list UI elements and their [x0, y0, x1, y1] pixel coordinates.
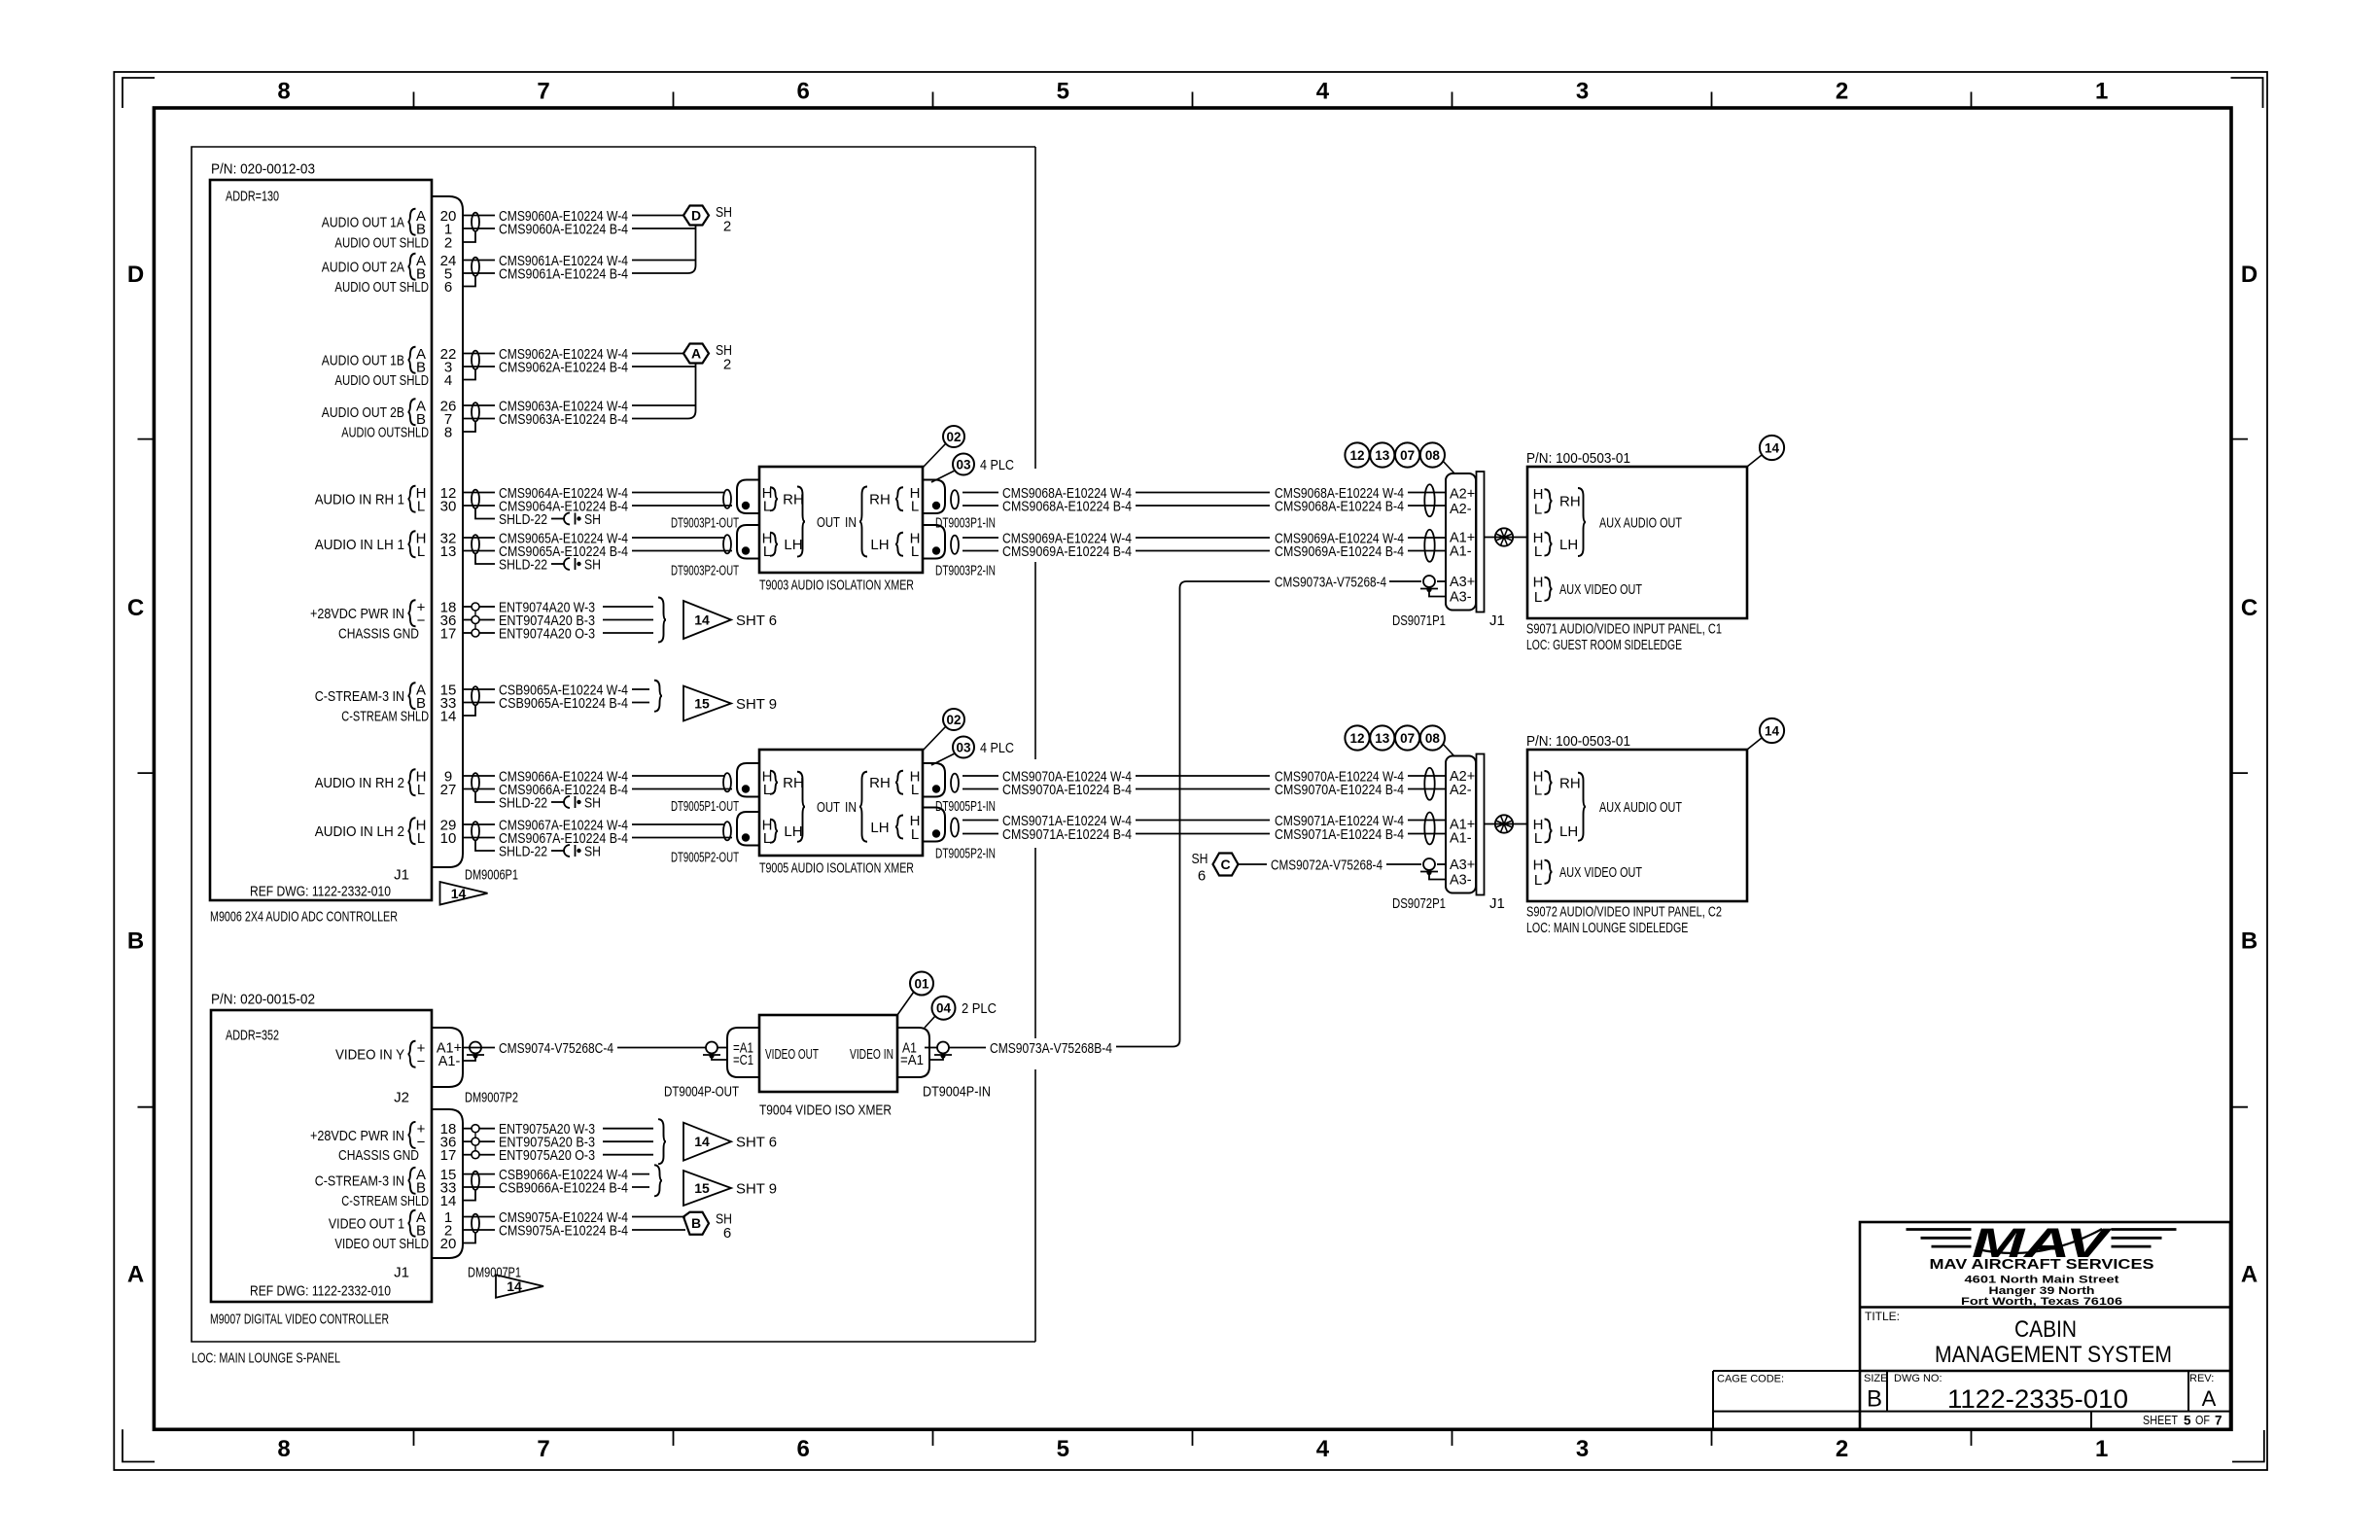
svg-text:17: 17 — [440, 1147, 457, 1164]
svg-text:T9003 AUDIO ISOLATION XMER: T9003 AUDIO ISOLATION XMER — [759, 577, 914, 593]
svg-text:2: 2 — [1836, 79, 1848, 105]
svg-text:14: 14 — [440, 708, 457, 724]
svg-text:AUDIO OUT SHLD: AUDIO OUT SHLD — [334, 372, 429, 389]
svg-text:L: L — [1534, 501, 1542, 517]
svg-text:A1-: A1- — [1450, 831, 1472, 847]
svg-text:L: L — [763, 498, 771, 514]
svg-text:6: 6 — [444, 279, 452, 296]
svg-text:10: 10 — [440, 830, 457, 847]
svg-text:CMS9073A-V75268-4: CMS9073A-V75268-4 — [1275, 574, 1386, 590]
svg-text:12: 12 — [1349, 731, 1364, 746]
svg-text:P/N: 020-0012-03: P/N: 020-0012-03 — [211, 160, 315, 177]
svg-text:C-STREAM SHLD: C-STREAM SHLD — [341, 1193, 429, 1209]
svg-text:13: 13 — [1375, 731, 1390, 746]
svg-text:DT9003P2-IN: DT9003P2-IN — [935, 562, 996, 578]
svg-text:DS9072P1: DS9072P1 — [1392, 895, 1446, 912]
svg-text:MAV AIRCRAFT SERVICES: MAV AIRCRAFT SERVICES — [1930, 1257, 2154, 1273]
svg-text:CSB9066A-E10224 B-4: CSB9066A-E10224 B-4 — [499, 1179, 628, 1196]
svg-text:AUDIO IN RH 1: AUDIO IN RH 1 — [315, 492, 404, 508]
svg-text:AUX VIDEO OUT: AUX VIDEO OUT — [1559, 864, 1642, 881]
svg-text:L: L — [417, 498, 425, 514]
svg-text:14: 14 — [1765, 723, 1780, 738]
svg-text:REF DWG: 1122-2332-010: REF DWG: 1122-2332-010 — [250, 1282, 391, 1299]
svg-text:CMS9075A-E10224 B-4: CMS9075A-E10224 B-4 — [499, 1222, 628, 1239]
svg-text:CMS9066A-E10224 B-4: CMS9066A-E10224 B-4 — [499, 782, 628, 798]
svg-text:CMS9074-V75268C-4: CMS9074-V75268C-4 — [499, 1040, 613, 1057]
svg-text:AUDIO IN LH 1: AUDIO IN LH 1 — [315, 537, 404, 553]
svg-text:2 PLC: 2 PLC — [962, 1000, 997, 1017]
svg-text:4: 4 — [1316, 1436, 1330, 1462]
svg-text:CMS9068A-E10224 B-4: CMS9068A-E10224 B-4 — [1275, 498, 1404, 514]
svg-text:RH: RH — [783, 775, 804, 791]
svg-text:CMS9073A-V75268B-4: CMS9073A-V75268B-4 — [990, 1040, 1112, 1057]
svg-text:TITLE:: TITLE: — [1865, 1310, 1900, 1323]
svg-text:A: A — [127, 1261, 144, 1287]
svg-text:2: 2 — [723, 218, 731, 234]
svg-text:14: 14 — [507, 1278, 522, 1294]
svg-text:CMS9063A-E10224 B-4: CMS9063A-E10224 B-4 — [499, 411, 628, 428]
svg-text:C: C — [2241, 595, 2257, 621]
svg-text:B: B — [1867, 1386, 1882, 1413]
svg-text:DT9005P2-OUT: DT9005P2-OUT — [671, 849, 739, 865]
svg-text:L: L — [911, 826, 919, 843]
svg-text:15: 15 — [694, 1180, 710, 1196]
svg-text:02: 02 — [946, 713, 961, 727]
svg-text:P/N: 100-0503-01: P/N: 100-0503-01 — [1526, 450, 1630, 467]
svg-text:B: B — [2241, 928, 2257, 955]
svg-text:MANAGEMENT SYSTEM: MANAGEMENT SYSTEM — [1935, 1342, 2172, 1368]
svg-text:DT9003P1-OUT: DT9003P1-OUT — [671, 514, 739, 531]
svg-text:DT9005P1-IN: DT9005P1-IN — [935, 798, 996, 815]
svg-text:A2+: A2+ — [1450, 487, 1475, 503]
svg-text:J1: J1 — [1489, 612, 1505, 629]
svg-text:AUDIO OUT SHLD: AUDIO OUT SHLD — [334, 279, 429, 296]
svg-text:14: 14 — [440, 1193, 457, 1209]
svg-text:CMS9064A-E10224 B-4: CMS9064A-E10224 B-4 — [499, 498, 628, 514]
svg-text:CMS9071A-E10224 B-4: CMS9071A-E10224 B-4 — [1275, 826, 1404, 843]
svg-text:4 PLC: 4 PLC — [980, 457, 1014, 473]
svg-text:DM9007P2: DM9007P2 — [465, 1089, 518, 1105]
svg-text:VIDEO OUT SHLD: VIDEO OUT SHLD — [334, 1236, 429, 1252]
svg-text:CMS9069A-E10224 B-4: CMS9069A-E10224 B-4 — [1002, 543, 1132, 560]
svg-text:T9004 VIDEO ISO XMER: T9004 VIDEO ISO XMER — [759, 1102, 892, 1118]
svg-text:A3-: A3- — [1450, 873, 1472, 889]
svg-text:SHT 6: SHT 6 — [736, 612, 777, 629]
svg-text:RH: RH — [1559, 494, 1581, 510]
svg-text:DT9004P-IN: DT9004P-IN — [923, 1083, 991, 1100]
svg-text:LH: LH — [870, 820, 889, 836]
svg-text:RH: RH — [869, 775, 891, 791]
svg-text:B: B — [691, 1215, 701, 1231]
svg-text:LH: LH — [1559, 537, 1578, 553]
svg-text:C-STREAM-3 IN: C-STREAM-3 IN — [315, 1173, 404, 1190]
svg-text:D: D — [2241, 262, 2257, 288]
svg-text:13: 13 — [1375, 448, 1390, 463]
svg-text:SHEET: SHEET — [2143, 1414, 2178, 1427]
svg-text:8: 8 — [444, 424, 452, 440]
svg-text:A1-: A1- — [1450, 544, 1472, 560]
svg-text:CMS9061A-E10224 B-4: CMS9061A-E10224 B-4 — [499, 265, 628, 282]
svg-text:CMS9065A-E10224 B-4: CMS9065A-E10224 B-4 — [499, 543, 628, 560]
svg-text:DT9003P1-IN: DT9003P1-IN — [935, 514, 996, 531]
svg-text:01: 01 — [914, 976, 929, 991]
svg-text:DT9004P-OUT: DT9004P-OUT — [664, 1083, 739, 1100]
svg-text:DM9006P1: DM9006P1 — [465, 866, 518, 883]
svg-text:7: 7 — [2215, 1413, 2222, 1427]
svg-text:SHT 9: SHT 9 — [736, 696, 777, 713]
svg-text:LH: LH — [784, 537, 802, 553]
svg-text:A1-: A1- — [438, 1054, 461, 1069]
svg-text:08: 08 — [1425, 448, 1441, 463]
svg-text:A: A — [691, 346, 701, 362]
svg-text:2: 2 — [1836, 1436, 1848, 1462]
svg-text:07: 07 — [1400, 448, 1415, 463]
svg-text:6: 6 — [797, 1436, 810, 1462]
svg-text:6: 6 — [1198, 867, 1206, 884]
svg-text:AUDIO OUT 1A: AUDIO OUT 1A — [322, 215, 404, 231]
svg-text:VIDEO IN: VIDEO IN — [850, 1046, 893, 1063]
svg-text:14: 14 — [1765, 440, 1780, 455]
svg-text:C-STREAM SHLD: C-STREAM SHLD — [341, 708, 429, 724]
svg-text:DS9071P1: DS9071P1 — [1392, 612, 1446, 629]
svg-text:ADDR=130: ADDR=130 — [226, 188, 279, 204]
svg-text:RH: RH — [869, 492, 891, 508]
svg-text:L: L — [1534, 543, 1542, 560]
svg-text:08: 08 — [1425, 731, 1441, 746]
svg-text:L: L — [1534, 830, 1542, 847]
svg-text:VIDEO OUT 1: VIDEO OUT 1 — [329, 1216, 404, 1233]
svg-text:J1: J1 — [394, 1264, 409, 1280]
svg-text:RH: RH — [1559, 775, 1581, 791]
svg-text:A3-: A3- — [1450, 590, 1472, 606]
svg-text:8: 8 — [277, 79, 290, 105]
svg-text:6: 6 — [797, 79, 810, 105]
svg-text:14: 14 — [451, 886, 467, 901]
svg-text:CMS9068A-E10224 B-4: CMS9068A-E10224 B-4 — [1002, 498, 1132, 514]
svg-text:LOC: GUEST ROOM SIDELEDGE: LOC: GUEST ROOM SIDELEDGE — [1526, 637, 1682, 653]
svg-text:OUT: OUT — [817, 799, 840, 816]
svg-text:LH: LH — [1559, 823, 1578, 840]
svg-text:13: 13 — [440, 543, 457, 560]
svg-text:CMS9067A-E10224 B-4: CMS9067A-E10224 B-4 — [499, 830, 628, 847]
svg-text:14: 14 — [694, 612, 710, 628]
svg-text:5: 5 — [2184, 1413, 2191, 1427]
svg-text:ADDR=352: ADDR=352 — [226, 1027, 279, 1043]
svg-text:CABIN: CABIN — [2014, 1316, 2077, 1343]
svg-text:ENT9075A20 O-3: ENT9075A20 O-3 — [499, 1147, 595, 1164]
svg-text:AUX AUDIO OUT: AUX AUDIO OUT — [1599, 799, 1682, 816]
svg-text:L: L — [763, 543, 771, 560]
svg-text:D: D — [691, 208, 701, 224]
svg-text:DT9005P2-IN: DT9005P2-IN — [935, 845, 996, 861]
svg-text:4601 North Main Street: 4601 North Main Street — [1965, 1274, 2119, 1285]
svg-text:27: 27 — [440, 782, 457, 798]
svg-text:4: 4 — [444, 372, 452, 389]
svg-text:C: C — [1220, 857, 1230, 872]
svg-text:AUX VIDEO OUT: AUX VIDEO OUT — [1559, 581, 1642, 598]
svg-text:LH: LH — [870, 537, 889, 553]
svg-text:IN: IN — [845, 514, 857, 531]
svg-text:L: L — [417, 830, 425, 847]
svg-text:DT9005P1-OUT: DT9005P1-OUT — [671, 798, 739, 815]
svg-text:3: 3 — [1576, 1436, 1589, 1462]
svg-text:04: 04 — [936, 1001, 952, 1016]
svg-text:OF: OF — [2195, 1414, 2210, 1427]
svg-text:CMS9069A-E10224 B-4: CMS9069A-E10224 B-4 — [1275, 543, 1404, 560]
svg-text:J2: J2 — [394, 1089, 409, 1105]
svg-text:L: L — [763, 830, 771, 847]
svg-text:CHASSIS GND: CHASSIS GND — [338, 625, 419, 642]
svg-text:SH: SH — [1192, 851, 1208, 867]
svg-text:DT9003P2-OUT: DT9003P2-OUT — [671, 562, 739, 578]
svg-text:2: 2 — [444, 234, 452, 251]
svg-text:CMS9070A-E10224 B-4: CMS9070A-E10224 B-4 — [1002, 782, 1132, 798]
svg-text:LH: LH — [784, 823, 802, 840]
svg-text:J1: J1 — [394, 866, 409, 883]
svg-text:C: C — [127, 595, 144, 621]
svg-text:M9007 DIGITAL VIDEO CONTROLLER: M9007 DIGITAL VIDEO CONTROLLER — [210, 1311, 389, 1327]
svg-text:REF DWG: 1122-2332-010: REF DWG: 1122-2332-010 — [250, 883, 391, 899]
svg-text:AUDIO IN RH 2: AUDIO IN RH 2 — [315, 775, 404, 791]
svg-text:+28VDC PWR IN: +28VDC PWR IN — [310, 606, 404, 622]
svg-text:CMS9071A-E10224 B-4: CMS9071A-E10224 B-4 — [1002, 826, 1132, 843]
svg-text:B: B — [127, 928, 144, 955]
svg-text:+28VDC PWR IN: +28VDC PWR IN — [310, 1128, 404, 1144]
svg-text:DWG NO:: DWG NO: — [1894, 1373, 1942, 1384]
svg-text:P/N: 100-0503-01: P/N: 100-0503-01 — [1526, 733, 1630, 750]
svg-text:1122-2335-010: 1122-2335-010 — [1947, 1384, 2128, 1414]
svg-text:03: 03 — [956, 457, 971, 472]
svg-text:A: A — [2241, 1261, 2257, 1287]
svg-text:3: 3 — [1576, 79, 1589, 105]
svg-text:A2-: A2- — [1450, 783, 1472, 798]
svg-text:CAGE CODE:: CAGE CODE: — [1717, 1373, 1784, 1384]
svg-text:=A1: =A1 — [900, 1053, 924, 1068]
svg-text:AUDIO IN LH 2: AUDIO IN LH 2 — [315, 823, 404, 840]
svg-text:7: 7 — [537, 79, 549, 105]
svg-text:H: H — [1533, 574, 1544, 590]
svg-text:20: 20 — [440, 1236, 457, 1252]
svg-text:AUDIO OUT 2A: AUDIO OUT 2A — [322, 260, 404, 276]
svg-text:CMS9070A-E10224 B-4: CMS9070A-E10224 B-4 — [1275, 782, 1404, 798]
svg-text:5: 5 — [1057, 1436, 1069, 1462]
svg-text:T9005 AUDIO ISOLATION XMER: T9005 AUDIO ISOLATION XMER — [759, 859, 914, 876]
svg-text:CMS9072A-V75268-4: CMS9072A-V75268-4 — [1271, 857, 1382, 873]
svg-text:1: 1 — [2095, 1436, 2108, 1462]
svg-text:OUT: OUT — [817, 514, 840, 531]
svg-text:H: H — [1533, 486, 1544, 503]
svg-text:L: L — [417, 543, 425, 560]
svg-text:L: L — [1534, 589, 1542, 606]
svg-text:6: 6 — [723, 1225, 731, 1242]
svg-text:SIZE: SIZE — [1864, 1373, 1887, 1384]
svg-text:L: L — [911, 782, 919, 798]
svg-text:S9072 AUDIO/VIDEO INPUT PANEL,: S9072 AUDIO/VIDEO INPUT PANEL, C2 — [1526, 903, 1722, 920]
svg-text:02: 02 — [946, 430, 961, 444]
svg-text:AUDIO OUT 2B: AUDIO OUT 2B — [322, 404, 404, 421]
svg-text:07: 07 — [1400, 731, 1415, 746]
svg-text:7: 7 — [537, 1436, 549, 1462]
svg-text:15: 15 — [694, 696, 710, 712]
svg-text:14: 14 — [694, 1134, 710, 1149]
svg-text:AUX AUDIO OUT: AUX AUDIO OUT — [1599, 514, 1682, 531]
svg-text:CMS9060A-E10224 B-4: CMS9060A-E10224 B-4 — [499, 221, 628, 237]
svg-text:AUDIO OUTSHLD: AUDIO OUTSHLD — [341, 424, 429, 440]
svg-text:17: 17 — [440, 625, 457, 642]
svg-text:J1: J1 — [1489, 895, 1505, 912]
svg-text:CMS9062A-E10224 B-4: CMS9062A-E10224 B-4 — [499, 359, 628, 375]
svg-text:=C1: =C1 — [733, 1053, 753, 1068]
svg-text:30: 30 — [440, 498, 457, 514]
svg-text:S9071 AUDIO/VIDEO INPUT PANEL,: S9071 AUDIO/VIDEO INPUT PANEL, C1 — [1526, 620, 1722, 637]
svg-text:L: L — [1534, 872, 1542, 889]
svg-text:5: 5 — [1057, 79, 1069, 105]
svg-text:IN: IN — [845, 799, 857, 816]
svg-text:AUDIO OUT 1B: AUDIO OUT 1B — [322, 353, 404, 369]
svg-text:A2-: A2- — [1450, 502, 1472, 517]
svg-text:L: L — [911, 543, 919, 560]
svg-text:L: L — [763, 782, 771, 798]
svg-text:L: L — [1534, 782, 1542, 798]
svg-text:H: H — [1533, 857, 1544, 873]
svg-text:SHT 6: SHT 6 — [736, 1135, 777, 1151]
svg-text:AUDIO OUT SHLD: AUDIO OUT SHLD — [334, 234, 429, 251]
svg-text:CHASSIS GND: CHASSIS GND — [338, 1147, 419, 1164]
svg-text:1: 1 — [2095, 79, 2108, 105]
svg-text:LOC: MAIN LOUNGE S-PANEL: LOC: MAIN LOUNGE S-PANEL — [192, 1349, 340, 1366]
svg-text:RH: RH — [783, 492, 804, 508]
svg-text:A3+: A3+ — [1450, 857, 1475, 873]
svg-text:REV:: REV: — [2189, 1373, 2214, 1384]
svg-text:P/N: 020-0015-02: P/N: 020-0015-02 — [211, 991, 315, 1007]
svg-text:L: L — [911, 498, 919, 514]
svg-text:LOC: MAIN LOUNGE SIDELEDGE: LOC: MAIN LOUNGE SIDELEDGE — [1526, 920, 1688, 936]
svg-text:VIDEO OUT: VIDEO OUT — [765, 1046, 819, 1063]
svg-text:L: L — [417, 782, 425, 798]
svg-text:A: A — [2202, 1386, 2217, 1411]
svg-text:ENT9074A20 O-3: ENT9074A20 O-3 — [499, 625, 595, 642]
svg-text:D: D — [127, 262, 144, 288]
svg-text:4 PLC: 4 PLC — [980, 740, 1014, 756]
svg-text:Fort Worth, Texas 76106: Fort Worth, Texas 76106 — [1961, 1296, 2122, 1308]
svg-text:C-STREAM-3 IN: C-STREAM-3 IN — [315, 688, 404, 705]
svg-text:8: 8 — [277, 1436, 290, 1462]
svg-text:03: 03 — [956, 740, 971, 754]
svg-text:VIDEO IN Y: VIDEO IN Y — [335, 1047, 404, 1064]
svg-text:SHT 9: SHT 9 — [736, 1180, 777, 1197]
svg-text:4: 4 — [1316, 79, 1330, 105]
svg-text:12: 12 — [1349, 448, 1364, 463]
svg-text:−: − — [417, 1053, 426, 1069]
svg-text:CSB9065A-E10224 B-4: CSB9065A-E10224 B-4 — [499, 695, 628, 712]
svg-text:2: 2 — [723, 356, 731, 372]
svg-text:A3+: A3+ — [1450, 575, 1475, 590]
svg-text:M9006 2X4 AUDIO ADC CONTROLLER: M9006 2X4 AUDIO ADC CONTROLLER — [210, 908, 398, 925]
